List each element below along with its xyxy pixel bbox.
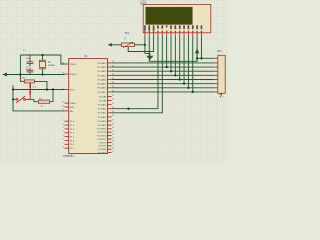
pin RST (9) xyxy=(65,89,69,91)
microcontroller U1 AT89C51 body xyxy=(69,59,108,154)
svg-text:RST: RST xyxy=(70,89,75,91)
svg-text:33p: 33p xyxy=(26,58,29,60)
LCD pin 13 D6 xyxy=(196,25,198,29)
wire RST xyxy=(13,89,65,91)
svg-text:1k: 1k xyxy=(41,106,43,108)
wire P0.7 to RP1 xyxy=(112,91,214,93)
pin P0.6/AD6 (33) xyxy=(108,87,112,89)
svg-text:P3.3/INT1: P3.3/INT1 xyxy=(97,139,107,141)
junction xyxy=(183,83,185,85)
junction on RS wire xyxy=(127,108,129,110)
wire P0.4 to RP1 xyxy=(112,79,214,81)
svg-text:XTAL1: XTAL1 xyxy=(70,63,77,66)
svg-text:P0.1/AD1: P0.1/AD1 xyxy=(97,66,107,69)
svg-text:RV1: RV1 xyxy=(125,32,130,35)
pin P2.1/A9 (22) xyxy=(108,100,112,102)
svg-text:P0.6/AD6: P0.6/AD6 xyxy=(97,87,107,90)
svg-text:3: 3 xyxy=(63,127,64,129)
wire RS to U1 P2 (long) xyxy=(112,37,158,109)
junction crystal top xyxy=(41,54,43,56)
svg-text:29: 29 xyxy=(62,101,64,103)
pin P0.4/AD4 (35) xyxy=(108,79,112,81)
pin P3.6/WR (16) xyxy=(108,148,112,150)
pin P1.7 (8) xyxy=(65,147,69,149)
svg-text:P0.5/AD5: P0.5/AD5 xyxy=(97,83,107,86)
C3 bottom lead xyxy=(29,95,31,100)
svg-text:P2.5/A13: P2.5/A13 xyxy=(98,116,107,119)
pin XTAL2 (18) xyxy=(65,73,69,75)
svg-text:P3.5/T1: P3.5/T1 xyxy=(99,146,107,148)
svg-text:23: 23 xyxy=(112,103,114,105)
left VCC rail xyxy=(19,55,21,81)
svg-text:P0.7/AD7: P0.7/AD7 xyxy=(97,91,107,94)
junction R1/RST xyxy=(46,88,48,90)
LCD screen xyxy=(146,7,193,24)
pin P3.7/RD (17) xyxy=(108,152,112,154)
svg-text:11: 11 xyxy=(112,131,114,133)
LCD pin 10 D3 xyxy=(183,25,185,29)
LCD pin 1 VSS xyxy=(144,25,146,30)
junction pin14 xyxy=(200,57,202,59)
pin PSEN (29) xyxy=(65,102,69,104)
svg-text:21: 21 xyxy=(112,95,114,97)
pin P0.2/AD2 (37) xyxy=(108,70,112,72)
RP1 pin 8 stub xyxy=(214,91,218,93)
pin EA (31) xyxy=(65,110,69,112)
capacitor C2 xyxy=(29,68,31,70)
svg-text:7: 7 xyxy=(63,143,64,145)
wire LCD pin14 down xyxy=(200,37,202,59)
svg-text:28: 28 xyxy=(112,123,114,125)
LCD pin 14 D7 xyxy=(201,25,203,29)
svg-text:10: 10 xyxy=(112,127,114,129)
wire VDD down xyxy=(149,37,197,62)
pin P0.7/AD7 (32) xyxy=(108,91,112,93)
svg-text:P2.1/A9: P2.1/A9 xyxy=(99,99,107,102)
svg-text:P0.4/AD4: P0.4/AD4 xyxy=(97,78,107,81)
svg-text:P2.7/A15: P2.7/A15 xyxy=(98,124,107,127)
svg-text:P0.3/AD3: P0.3/AD3 xyxy=(97,74,107,77)
left rail down to EA wire xyxy=(13,90,65,111)
svg-text:12MHZ: 12MHZ xyxy=(48,65,56,67)
wire LCD pin13 down to VCC rail xyxy=(196,37,198,62)
svg-text:P2.3/A11: P2.3/A11 xyxy=(98,108,107,111)
pin P3.1/TXD (11) xyxy=(108,131,112,133)
svg-text:2: 2 xyxy=(63,123,64,125)
svg-text:18: 18 xyxy=(62,72,64,74)
svg-text:P2.2/A10: P2.2/A10 xyxy=(98,104,107,107)
pin P2.6/A14 (27) xyxy=(108,120,112,122)
LCD pin 4 RS xyxy=(157,25,159,28)
LCD pin 9 D2 xyxy=(179,25,181,29)
LCD pin 3 VEE xyxy=(153,25,155,30)
resistor R1 xyxy=(20,80,24,82)
LCD pin 2 VDD xyxy=(148,25,150,30)
RP1 pin 6 stub xyxy=(214,83,218,85)
wire LCD data pin down to P0 bus xyxy=(192,37,194,92)
svg-text:PSEN: PSEN xyxy=(70,103,76,105)
wire LCD data pin down to P0 bus xyxy=(187,37,189,88)
wire LCD data pin down to P0 bus xyxy=(170,37,172,72)
svg-text:17: 17 xyxy=(112,151,114,153)
pin XTAL1 (19) xyxy=(65,63,69,65)
junction xyxy=(170,70,172,72)
wire VEE to pot wiper xyxy=(128,37,153,52)
svg-text:AT89C51: AT89C51 xyxy=(63,154,74,158)
svg-text:P3.2/INT0: P3.2/INT0 xyxy=(97,136,107,138)
pin P0.5/AD5 (34) xyxy=(108,83,112,85)
svg-text:10u: 10u xyxy=(33,87,36,89)
svg-text:27: 27 xyxy=(112,119,114,121)
pin ALE (30) xyxy=(65,106,69,108)
svg-text:P0.0/AD0: P0.0/AD0 xyxy=(97,62,107,65)
junction xyxy=(166,66,168,68)
wire P0.1 to RP1 xyxy=(112,66,214,68)
wire P0.5 to RP1 xyxy=(112,83,214,85)
pin P3.3/INT1 (13) xyxy=(108,138,112,140)
svg-text:P2.0/A8: P2.0/A8 xyxy=(99,95,107,98)
rail stub above RST xyxy=(12,85,14,89)
svg-text:26: 26 xyxy=(112,115,114,117)
svg-text:4: 4 xyxy=(63,131,64,133)
svg-text:5: 5 xyxy=(63,135,64,137)
RP1 pin 7 stub xyxy=(214,87,218,89)
wire VCC to RP1 common xyxy=(197,57,214,59)
RP1 pin 2 stub xyxy=(214,66,218,68)
pin P2.7/A15 (28) xyxy=(108,124,112,126)
svg-text:P0.2/AD2: P0.2/AD2 xyxy=(97,70,107,73)
pin P1.5 (6) xyxy=(65,139,69,141)
RP1 bottom mark xyxy=(219,94,222,97)
svg-text:P3.4/T0: P3.4/T0 xyxy=(99,142,107,144)
pin P3.2/INT0 (12) xyxy=(108,135,112,137)
power arrow (left) xyxy=(2,73,7,77)
capacitor C1 xyxy=(29,55,31,62)
svg-text:8: 8 xyxy=(63,146,64,148)
LCD pin 11 D4 xyxy=(188,25,190,29)
wire P0.2 to RP1 xyxy=(112,70,214,72)
svg-text:30: 30 xyxy=(62,105,64,107)
wire pot right xyxy=(135,44,145,46)
junction crystal bottom xyxy=(41,73,43,75)
power arrow (pot left) xyxy=(108,43,112,47)
junction button/rail xyxy=(12,98,14,100)
LCD pin 12 D5 xyxy=(192,25,194,29)
pin P0.1/AD1 (38) xyxy=(108,66,112,68)
pin P2.3/A11 (24) xyxy=(108,108,112,110)
svg-text:1: 1 xyxy=(63,120,64,122)
svg-text:16: 16 xyxy=(112,148,114,150)
wire E to U1 P2 (long) xyxy=(112,37,163,113)
svg-text:13: 13 xyxy=(112,137,114,139)
svg-text:22: 22 xyxy=(112,99,114,101)
LCD pin 5 RW xyxy=(162,25,164,28)
junction R2/RST xyxy=(52,88,54,90)
wire XTAL1 net xyxy=(20,55,64,64)
junction xyxy=(187,87,189,89)
wire LCD data pin down to P0 bus xyxy=(183,37,185,84)
junction rail/RST xyxy=(12,88,14,90)
ground (LCD VSS) xyxy=(146,56,153,60)
svg-text:P3.0/RXD: P3.0/RXD xyxy=(97,129,107,131)
svg-text:P3.1/TXD: P3.1/TXD xyxy=(97,132,107,134)
wire P0.6 to RP1 xyxy=(112,87,214,89)
RP1 pin 4 stub xyxy=(214,74,218,76)
svg-text:P3.6/WR: P3.6/WR xyxy=(98,149,107,151)
svg-text:15: 15 xyxy=(112,144,114,146)
junction VSS/pot wire xyxy=(144,44,146,46)
pin P3.0/RXD (10) xyxy=(108,128,112,130)
wire LCD data pin down to P0 bus xyxy=(166,37,168,68)
svg-text:RP1: RP1 xyxy=(217,50,222,53)
wire LCD data pin down to P0 bus xyxy=(179,37,181,80)
crystal X1 xyxy=(42,55,44,60)
pin P3.5/T1 (15) xyxy=(108,145,112,147)
power VCC arrow (right) xyxy=(195,48,199,53)
junction xyxy=(174,74,176,76)
svg-text:P2.4/A12: P2.4/A12 xyxy=(98,112,107,115)
LCD pin 7 D0 xyxy=(170,25,172,29)
svg-text:P3.7/RD: P3.7/RD xyxy=(98,153,106,155)
pin P2.0/A8 (21) xyxy=(108,96,112,98)
push button xyxy=(13,98,16,100)
RP1 common pin stub xyxy=(214,57,218,59)
junction rail/XTAL2 xyxy=(19,73,21,75)
svg-text:12: 12 xyxy=(112,134,114,136)
resistor R2 xyxy=(39,100,50,103)
LCD pin 8 D1 xyxy=(175,25,177,29)
LCD pin 6 E xyxy=(166,25,168,27)
pin P1.1 (2) xyxy=(65,124,69,126)
pin P2.4/A12 (25) xyxy=(108,112,112,114)
pin P2.5/A13 (26) xyxy=(108,116,112,118)
svg-text:ALE: ALE xyxy=(70,106,75,109)
svg-text:6: 6 xyxy=(63,139,64,141)
wire pot left xyxy=(112,44,122,46)
wire P0.3 to RP1 xyxy=(112,74,214,76)
pin P1.6 (7) xyxy=(65,143,69,145)
wire VSS down xyxy=(145,37,150,56)
pin P0.3/AD3 (36) xyxy=(108,74,112,76)
pin P1.4 (5) xyxy=(65,136,69,138)
pin P1.3 (4) xyxy=(65,132,69,134)
wire LCD data pin down to P0 bus xyxy=(174,37,176,76)
svg-text:14: 14 xyxy=(112,141,114,143)
pin P2.2/A10 (23) xyxy=(108,104,112,106)
svg-text:XTAL2: XTAL2 xyxy=(70,73,77,76)
RP1 pin 3 stub xyxy=(214,70,218,72)
pin P0.0/AD0 (39) xyxy=(108,62,112,64)
pin P3.4/T0 (14) xyxy=(108,141,112,143)
wire P0.0 to RP1 xyxy=(112,62,214,64)
RP1 pin 5 stub xyxy=(214,79,218,81)
svg-text:P2.6/A14: P2.6/A14 xyxy=(98,120,107,123)
capacitor C3 (electrolytic) xyxy=(29,84,31,89)
LCD LCD1 body xyxy=(143,5,211,33)
svg-text:U1: U1 xyxy=(84,54,88,58)
pin P1.0 (1) xyxy=(65,120,69,122)
svg-text:1: 1 xyxy=(223,97,224,99)
resistor pack RP1 body xyxy=(218,55,225,93)
junction VCC tee xyxy=(196,57,198,59)
pin P1.2 (3) xyxy=(65,128,69,130)
potentiometer RV1 body xyxy=(122,43,135,47)
wire XTAL2 net xyxy=(7,74,65,76)
junction xyxy=(179,78,181,80)
RP1 pin 1 stub xyxy=(214,62,218,64)
junction xyxy=(192,91,194,93)
